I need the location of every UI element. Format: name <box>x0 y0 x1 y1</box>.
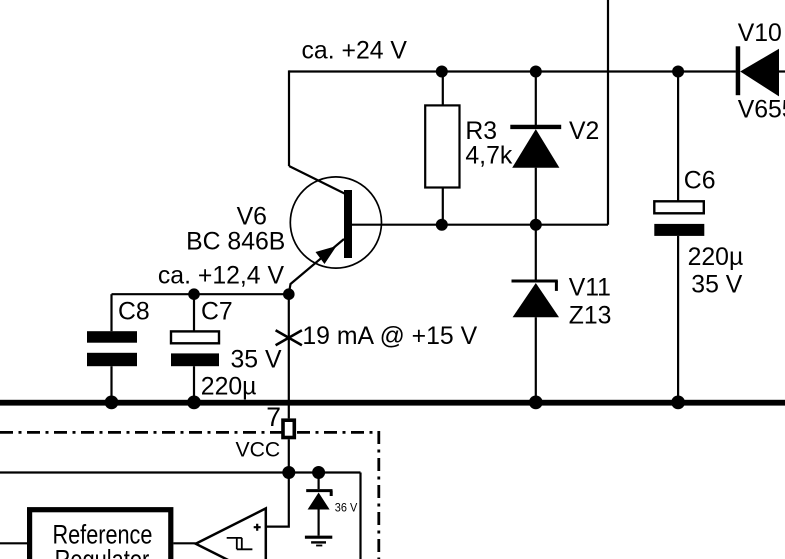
node vcc-opamp <box>282 466 295 479</box>
zener 36V hook <box>330 491 333 496</box>
wire top +24V rail <box>289 70 736 72</box>
svg-text:C8: C8 <box>118 298 150 325</box>
wire zener top stub <box>318 473 320 490</box>
wire collector rail to R3/V2 <box>352 224 608 226</box>
transistor V6 emitter arrow <box>316 246 337 264</box>
svg-text:R3: R3 <box>465 118 497 145</box>
resistor R3 <box>425 105 459 187</box>
svg-text:7: 7 <box>266 402 281 432</box>
op-amp plus input mark <box>254 524 261 531</box>
wire corner down x=360.5 <box>359 473 361 559</box>
wire left stub to box <box>0 542 27 544</box>
wire C6 top stub <box>677 72 679 202</box>
zener V11 hook <box>555 281 558 291</box>
svg-text:35 V: 35 V <box>691 272 742 299</box>
ground symbol <box>305 537 332 545</box>
wire zener to ground <box>318 510 320 536</box>
svg-text:BC 846B: BC 846B <box>186 228 285 255</box>
svg-text:Z13: Z13 <box>569 302 612 329</box>
svg-text:4,7k: 4,7k <box>465 142 512 169</box>
node emitter corner <box>283 288 295 300</box>
zener V11 triangle <box>513 283 559 317</box>
reference regulator box <box>30 510 171 559</box>
svg-text:ca. +24 V: ca. +24 V <box>302 37 408 64</box>
wire C6 bottom stub <box>677 236 679 400</box>
svg-text:220µ: 220µ <box>201 374 257 401</box>
boundary dash-dot horizontal <box>0 431 380 434</box>
boundary dash-dot vertical <box>377 431 380 559</box>
svg-text:ca. +12,4 V: ca. +12,4 V <box>158 263 285 290</box>
node bus-V11 <box>529 396 543 410</box>
wire horizontal VCC net y=472.5 <box>0 471 361 473</box>
node vcc-zener <box>312 466 325 479</box>
svg-text:35 V: 35 V <box>231 346 282 373</box>
node emitter-C7 <box>188 288 200 300</box>
svg-text:220µ: 220µ <box>688 244 744 271</box>
current marker X 19mA <box>276 330 302 345</box>
capacitor C7 top plate <box>171 331 219 343</box>
wire pin7 square down <box>288 439 290 472</box>
svg-text:VCC: VCC <box>236 439 281 462</box>
zener 36V triangle <box>308 493 330 510</box>
wire C8 top stub <box>110 294 112 331</box>
diode V2 bar <box>510 125 561 129</box>
wire V2 bottom stub <box>535 168 537 225</box>
svg-text:C7: C7 <box>201 298 233 325</box>
wire C7 top stub <box>193 294 195 331</box>
svg-text:C6: C6 <box>684 168 716 195</box>
wire vertical from rail to transistor collector <box>288 70 290 166</box>
svg-text:V11: V11 <box>569 275 611 302</box>
wire bus to pin7 square <box>288 405 290 418</box>
wire emitter down to bus <box>288 294 290 400</box>
wire collector diagonal into V6 <box>289 166 345 194</box>
wire R3 top stub <box>442 72 444 106</box>
wire vertical net x=608 <box>607 0 609 225</box>
diode V2 triangle <box>512 129 559 168</box>
node rail-V2 <box>530 66 542 78</box>
wire C8 bottom stub <box>110 366 112 400</box>
wire emitter diagonal of V6 <box>289 239 344 294</box>
wire right stub after V10 <box>779 70 785 72</box>
capacitor C6 bottom plate <box>654 224 704 236</box>
svg-text:36 V: 36 V <box>335 501 358 515</box>
diode V10 bar <box>736 46 741 95</box>
svg-text:V655: V655 <box>738 97 785 124</box>
node bus-C8 <box>105 396 119 410</box>
node collector-V2 <box>530 219 542 231</box>
svg-text:V2: V2 <box>569 118 599 145</box>
zener V11 bar <box>512 280 558 283</box>
wire C7 bottom stub <box>193 366 195 400</box>
capacitor C7 bottom plate <box>171 353 219 366</box>
node bus-C7 <box>187 396 201 410</box>
capacitor C8 bottom plate <box>87 353 137 366</box>
transistor V6 base bar <box>344 190 352 258</box>
zener 36V bar <box>306 489 332 492</box>
wire V2 top stub <box>535 72 537 127</box>
wire VCC to opamp plus input <box>266 473 289 527</box>
svg-text:19 mA @ +15 V: 19 mA @ +15 V <box>302 323 477 350</box>
svg-text:V10: V10 <box>738 20 782 47</box>
capacitor C8 top plate <box>87 331 137 343</box>
node rail-C6 <box>672 66 684 78</box>
node bus-C6 <box>671 396 685 410</box>
op-amp U1 triangle <box>196 508 266 559</box>
svg-text:Regulator: Regulator <box>55 544 150 559</box>
node rail-R3 <box>436 66 448 78</box>
transistor V6 circle <box>290 177 381 268</box>
bus thick supply line <box>0 400 785 406</box>
capacitor C6 top plate <box>654 201 704 213</box>
svg-text:V6: V6 <box>237 203 267 230</box>
wire V11 top stub <box>535 225 537 281</box>
node collector-R3 <box>436 219 448 231</box>
diode V10 triangle <box>740 49 779 97</box>
wire emitter horizontal +12,4V <box>112 293 289 295</box>
wire R3 bottom stub <box>442 188 444 225</box>
op-amp hysteresis symbol <box>227 538 253 549</box>
pin 7 connector square <box>283 420 294 437</box>
wire V11 bottom stub <box>535 317 537 400</box>
wire box to opamp output <box>173 542 195 544</box>
